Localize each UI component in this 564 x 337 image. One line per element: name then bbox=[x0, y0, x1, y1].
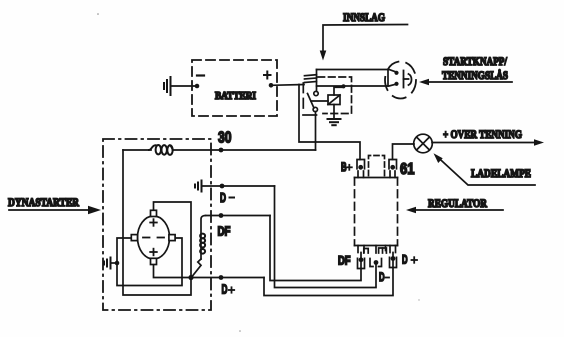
label STARTKNAPP/TENNINGSLAS bbox=[442, 54, 508, 82]
wire DF regulator to dynastarter bbox=[270, 216, 361, 281]
wire relay coil to switch line bbox=[334, 87, 344, 95]
svg-text:STARTKNAPP/: STARTKNAPP/ bbox=[443, 54, 508, 68]
svg-text:TENNINGSLÅS: TENNINGSLÅS bbox=[442, 68, 508, 82]
label REGULATOR bbox=[428, 196, 487, 210]
svg-text:30: 30 bbox=[218, 130, 232, 147]
node D- regulator bbox=[374, 260, 379, 265]
relay switch fixed contact upper bbox=[314, 91, 318, 95]
node DF left bbox=[219, 213, 224, 218]
node battery plus terminal bbox=[269, 83, 274, 88]
wire relay right vertical upper bbox=[316, 70, 318, 92]
wire battery plus to relay bbox=[271, 84, 304, 87]
terminal B+ bbox=[357, 160, 365, 178]
motor plus top bbox=[150, 219, 157, 226]
label D+ regulator bbox=[402, 253, 417, 267]
motor M1 armature bbox=[138, 216, 170, 259]
svg-text:61: 61 bbox=[400, 161, 415, 178]
wire relay to switch bottom bbox=[317, 84, 396, 86]
ignition switch S1 dashed circle bbox=[385, 62, 416, 99]
wire 30 line bbox=[123, 149, 316, 151]
svg-text:D: D bbox=[379, 270, 385, 284]
wire D- regulator to dynastarter bbox=[275, 186, 377, 288]
node switch lower contact bbox=[394, 82, 398, 86]
wire left brush to ground bus bbox=[117, 238, 182, 286]
arrow REGULATOR pointer bbox=[406, 207, 503, 214]
relay switch arm bbox=[308, 94, 314, 108]
svg-text:DYNASTARTER: DYNASTARTER bbox=[8, 195, 79, 209]
battery minus sign bbox=[197, 74, 204, 76]
wire D+ regulator to dynastarter bbox=[264, 253, 393, 296]
scan speckle bbox=[418, 299, 419, 300]
wire relay arm link bbox=[311, 100, 328, 102]
wire relay right vertical lower to 30 bbox=[315, 112, 317, 150]
relay coil K1 bbox=[328, 95, 340, 105]
motor minus left bbox=[143, 237, 150, 239]
motor plus bottom bbox=[150, 249, 157, 256]
wire DF row bbox=[206, 215, 271, 217]
wire relay block bottom bar bbox=[303, 114, 317, 116]
wire relay splice stack bbox=[305, 75, 317, 83]
regulator bottom pin bars bbox=[364, 248, 387, 253]
svg-text:D: D bbox=[220, 190, 226, 205]
node D+ regulator bbox=[391, 256, 396, 261]
regulator top dashed bracket bbox=[369, 156, 385, 176]
dynastarter M1 dash-dot box bbox=[103, 139, 211, 310]
node battery minus terminal bbox=[195, 84, 200, 89]
lamp H1 charge lamp bbox=[414, 134, 433, 153]
arrow DYNASTARTER pointer bbox=[9, 206, 101, 215]
node 30 bbox=[219, 148, 224, 153]
label + OVER TENNING bbox=[443, 127, 522, 141]
wire battery minus to ground bbox=[171, 85, 197, 87]
brush right bbox=[169, 235, 175, 241]
ground dynastarter bbox=[104, 258, 111, 269]
arrow STARTKNAPP pointer bbox=[419, 79, 512, 86]
ignition switch key symbol bbox=[404, 71, 412, 88]
label INNSLAG bbox=[343, 10, 385, 24]
ground relay bbox=[328, 119, 341, 125]
relay K1 dashed box bbox=[303, 77, 351, 114]
label D- left bbox=[220, 190, 234, 205]
node ground tap bbox=[115, 261, 120, 266]
wire lamp to over-tenning arrow bbox=[432, 139, 544, 146]
wire relay coil to ground bbox=[333, 105, 335, 119]
svg-text:INNSLAG: INNSLAG bbox=[343, 10, 385, 24]
arrow INNSLAG pointer bbox=[320, 25, 408, 61]
label DYNASTARTER bbox=[8, 195, 79, 209]
wire lamp to terminal 61 bbox=[393, 144, 415, 160]
node DF regulator bbox=[359, 257, 364, 262]
wire relay to switch top bbox=[317, 70, 396, 72]
wire relay left vertical to B+ bbox=[299, 85, 360, 160]
wire D- row bbox=[202, 185, 275, 187]
brush left bbox=[131, 235, 137, 241]
terminal D- regulator bbox=[370, 246, 382, 267]
svg-text:REGULATOR: REGULATOR bbox=[428, 196, 487, 210]
regulator U1 box bbox=[355, 178, 398, 246]
node armature junction bbox=[188, 275, 193, 280]
scan speckle bbox=[239, 330, 241, 332]
relay switch fixed contact lower bbox=[313, 107, 317, 111]
wire field winding to junction bbox=[192, 259, 202, 277]
label BATTERI bbox=[215, 90, 256, 102]
terminal D+ regulator bbox=[386, 246, 397, 268]
node D+ left bbox=[219, 275, 224, 280]
arrow LADELAMPE pointer bbox=[434, 153, 536, 185]
label D- regulator bbox=[379, 270, 389, 284]
node relay coil junction bbox=[341, 84, 345, 88]
battery B1 dashed box bbox=[192, 60, 277, 116]
terminal 61 bbox=[389, 160, 397, 178]
svg-text:+ OVER TENNING: + OVER TENNING bbox=[443, 127, 522, 141]
label B+ bbox=[341, 160, 352, 174]
label D+ left bbox=[222, 282, 235, 297]
wire ground stub bbox=[111, 262, 118, 264]
svg-text:BATTERI: BATTERI bbox=[215, 90, 256, 102]
node B+ bbox=[358, 165, 363, 170]
terminal DF regulator bbox=[358, 246, 365, 269]
wire bottom brush to D+ row bbox=[154, 265, 265, 278]
motor minus right bbox=[158, 237, 165, 239]
brush top bbox=[151, 210, 157, 216]
svg-text:LADELAMPE: LADELAMPE bbox=[471, 166, 531, 180]
inductor L2 field winding bbox=[200, 216, 205, 260]
wire switch bridge bbox=[387, 70, 389, 87]
node 61 bbox=[390, 165, 395, 170]
svg-text:D: D bbox=[222, 282, 228, 297]
svg-text:DF: DF bbox=[338, 254, 351, 268]
svg-text:DF: DF bbox=[218, 224, 231, 239]
ground battery bbox=[164, 77, 171, 95]
svg-text:D: D bbox=[402, 253, 408, 267]
label LADELAMPE bbox=[471, 166, 531, 180]
battery plus sign bbox=[264, 72, 271, 79]
brush bottom bbox=[151, 258, 157, 264]
node D- left bbox=[220, 184, 225, 189]
node switch upper contact bbox=[394, 71, 398, 75]
wire series loop left and bottom bbox=[123, 150, 191, 295]
scan speckle bbox=[97, 13, 99, 15]
ground D- row bbox=[195, 181, 202, 192]
inductor L1 series winding bbox=[149, 145, 173, 155]
